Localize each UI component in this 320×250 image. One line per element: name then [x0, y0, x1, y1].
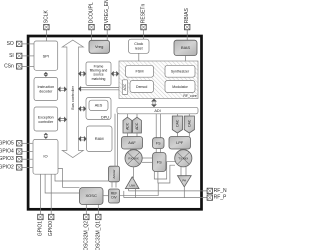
block ADC1 [123, 117, 132, 133]
svg-text:RBIAS: RBIAS [184, 8, 190, 24]
svg-text:Vreg: Vreg [95, 44, 103, 49]
svg-text:SO: SO [7, 41, 14, 47]
svg-text:reset: reset [135, 46, 143, 50]
wire RX mix to LNA [133, 167, 135, 178]
wire GPIO5 to IO [22, 142, 33, 144]
wire ADI to FS1 left [155, 114, 157, 138]
svg-text:FSM: FSM [135, 70, 143, 74]
svg-text:DAC: DAC [187, 119, 191, 127]
wire LNA stub down [123, 191, 125, 198]
bus link bus-frame [79, 72, 86, 77]
wire ADI to ADC2 [136, 114, 138, 118]
svg-text:AGC: AGC [123, 83, 127, 91]
wire DAC2 to LPF [188, 133, 190, 137]
wire LPF to TX mix left [180, 149, 182, 152]
wire GPIO3 to IO [22, 158, 33, 160]
svg-text:DAC: DAC [175, 119, 179, 127]
svg-text:GPIO3: GPIO3 [0, 156, 14, 162]
wire AAF to RX mix right [136, 149, 138, 152]
block FS1 [153, 138, 165, 149]
svg-text:Demod: Demod [136, 85, 147, 89]
block ADC2 [133, 117, 142, 133]
svg-text:PA: PA [182, 178, 186, 182]
block REF DIV [109, 189, 120, 203]
bus link exception-bus [58, 117, 67, 122]
chip outline [28, 36, 201, 209]
pin GPIO3 [0, 156, 22, 162]
amp LNA [125, 177, 139, 189]
wire SCLK to SPI [45, 30, 47, 42]
block AES [89, 100, 108, 110]
wire RBIAS to BIAS [186, 30, 188, 40]
wire AAF to RX mix left [130, 149, 132, 152]
bus link decoder-bus [58, 87, 67, 92]
pin SI [9, 53, 22, 59]
wire XOSC32M_Q1 from XOSC [97, 205, 99, 215]
svg-text:DCOUPL: DCOUPL [89, 2, 95, 23]
wire RESETn to Clock reset [143, 30, 145, 39]
block DAC1 [172, 116, 182, 133]
pin GPIO2 [0, 164, 22, 170]
wire ADI to DAC2 [188, 114, 190, 116]
wire FS2 to TX mix b [158, 165, 175, 183]
pin XOSC32M_Q1 [95, 214, 101, 250]
wire FS1 to FS2 left [155, 149, 157, 153]
svg-text:GPIO5: GPIO5 [0, 140, 14, 146]
svg-text:AAF: AAF [128, 141, 136, 145]
wire CSn to SPI [22, 65, 34, 67]
wire arbiter to XOSC a [111, 182, 113, 188]
svg-text:RF_N: RF_N [214, 188, 227, 194]
pin RF_N [207, 188, 227, 194]
svg-text:VREG_EN: VREG_EN [104, 0, 110, 23]
wire ADI to FS1 right [160, 114, 162, 138]
svg-text:decoder: decoder [39, 90, 53, 94]
svg-text:IO: IO [43, 154, 47, 159]
svg-text:RF_core: RF_core [183, 94, 196, 98]
wire REF DIV to FS2 [120, 183, 159, 196]
wire FS2 to RX mix a [142, 157, 153, 159]
svg-text:RAM: RAM [95, 136, 104, 141]
block DPU [86, 98, 111, 120]
svg-text:RX MIX: RX MIX [128, 156, 138, 160]
svg-text:ADI: ADI [154, 109, 160, 113]
svg-text:DIV: DIV [111, 196, 117, 200]
pin GPIO5 [0, 140, 22, 146]
block synthesizer [165, 65, 195, 77]
bus controller arrow [62, 40, 83, 158]
svg-text:DPU: DPU [101, 115, 109, 119]
block SPI [34, 41, 58, 70]
svg-text:ADC: ADC [135, 122, 139, 130]
svg-text:matching: matching [92, 77, 106, 81]
block arbiter [109, 166, 120, 182]
block DAC2 [184, 116, 194, 133]
wire PA to rails [183, 187, 185, 198]
wire FS2 to RX mix b [142, 161, 153, 163]
RF_core hatched region [119, 61, 198, 99]
bus link bus-ram [79, 137, 87, 142]
svg-text:LNA: LNA [129, 184, 135, 188]
svg-text:Exception: Exception [38, 115, 54, 119]
wire GPIO1 from IO [39, 174, 41, 214]
svg-text:controller: controller [38, 120, 54, 124]
bus link rfcore-ADI [152, 99, 157, 107]
block BIAS [174, 40, 197, 55]
wire SI to SPI [22, 55, 34, 57]
wire ADI to arbiter a [114, 114, 116, 167]
svg-text:CSn: CSn [4, 63, 14, 69]
mixer RX MIX [125, 150, 142, 167]
pin RBIAS [184, 8, 190, 30]
wire LPF to TX mix right [185, 149, 187, 152]
block LPF [169, 137, 191, 150]
wire GPIO0 from IO [50, 174, 52, 214]
pin RESETn [141, 4, 147, 30]
wire FS2 to TX mix a [154, 162, 175, 179]
svg-text:Clock: Clock [134, 42, 143, 46]
pin DCOUPL [89, 2, 95, 30]
block clock reset [129, 39, 150, 53]
svg-text:GPIO2: GPIO2 [0, 164, 14, 170]
block exception controller [34, 107, 58, 131]
svg-text:Synthesizer: Synthesizer [171, 70, 190, 74]
pin SCLK [43, 9, 49, 29]
wire GPIO2 to IO [22, 166, 33, 168]
block RAM [87, 126, 113, 152]
pin GPIO1 [37, 214, 43, 236]
wire DAC1 to LPF [176, 133, 178, 137]
pin VREG_EN [104, 0, 110, 30]
bus link bus-dpu [79, 107, 86, 112]
svg-text:Arbiter: Arbiter [112, 169, 116, 178]
block frame filtering [86, 62, 111, 86]
wire ADC2 to AAF [136, 133, 138, 137]
wire RF_P rail [124, 197, 207, 199]
wire arbiter to XOSC b [115, 182, 117, 188]
wire FS1 to FS2 right [160, 149, 162, 153]
wire VREG_EN to Vreg [106, 30, 108, 41]
pin RF_P [207, 195, 227, 201]
svg-text:LPF: LPF [176, 141, 184, 145]
bus link exception-IO [44, 133, 49, 139]
svg-text:XOSC32M_Q1: XOSC32M_Q1 [95, 221, 101, 250]
svg-text:Bus controller: Bus controller [70, 85, 75, 109]
svg-text:XOSC32M_Q2: XOSC32M_Q2 [83, 221, 89, 250]
amp PA [178, 176, 192, 187]
block XOSC [80, 188, 104, 205]
block ADI [117, 107, 198, 114]
wire IO bottom to arbiter [55, 174, 109, 181]
svg-text:FS: FS [156, 141, 161, 145]
svg-text:SCLK: SCLK [43, 9, 49, 23]
block AGC [122, 80, 127, 95]
svg-text:GPIO0: GPIO0 [48, 221, 54, 237]
wire TX mix to PA left [180, 167, 182, 176]
svg-text:BIAS: BIAS [181, 45, 190, 50]
block demod [130, 81, 154, 93]
bus wire bus-AGC long [79, 87, 122, 92]
wire DCOUPL to Vreg [91, 30, 93, 41]
svg-text:ADC: ADC [125, 122, 129, 130]
wire GPIO4 to IO [22, 151, 33, 153]
wire IO bottom to XOSC [45, 174, 79, 193]
svg-text:Instruction: Instruction [38, 85, 55, 89]
svg-text:RESETn: RESETn [141, 4, 147, 24]
svg-text:TX MIX: TX MIX [178, 156, 188, 160]
svg-text:SPI: SPI [43, 53, 49, 58]
pin CSn [4, 63, 22, 69]
block FSM [126, 65, 154, 77]
svg-text:GPIO4: GPIO4 [0, 149, 14, 155]
wire LNA right leg [134, 189, 136, 198]
block instruction decoder [34, 78, 58, 101]
svg-text:XOSC: XOSC [86, 193, 97, 198]
block Vreg [89, 40, 110, 53]
block modulator [165, 81, 195, 93]
svg-text:AES: AES [95, 104, 103, 108]
pin GPIO4 [0, 149, 22, 155]
wire clock reset to FSM [138, 53, 140, 65]
wire BIAS to synthesizer [185, 56, 187, 66]
svg-text:Modulator: Modulator [172, 85, 188, 89]
pin GPIO0 [48, 214, 54, 236]
svg-text:FS: FS [157, 160, 162, 164]
svg-text:RF_P: RF_P [214, 195, 227, 201]
wire ADI to arbiter b [117, 114, 119, 167]
wire XOSC to REF DIV [103, 195, 109, 197]
block AAF [122, 137, 143, 150]
wire TX mix to PA right [185, 167, 187, 176]
svg-text:SI: SI [9, 53, 14, 59]
pin SO [7, 41, 22, 47]
block FS2 [153, 153, 167, 172]
wire SO to SPI [22, 43, 34, 45]
bus link SPI-instruction decoder [44, 72, 49, 77]
mixer TX MIX [175, 150, 192, 167]
svg-text:GPIO1: GPIO1 [37, 221, 43, 237]
bus link frame-rfcore [111, 72, 118, 77]
wire LNA left leg [128, 189, 130, 191]
wire ADC1 to AAF [126, 133, 128, 137]
wire XOSC32M_Q2 from XOSC [85, 205, 87, 215]
wire RF_N rail [129, 190, 208, 192]
pin XOSC32M_Q2 [83, 214, 89, 250]
wire ADI to ADC1 [126, 114, 128, 118]
wire ADI to DAC1 [176, 114, 178, 116]
wire IO to XOSC top left [58, 169, 80, 188]
block IO [33, 139, 58, 174]
